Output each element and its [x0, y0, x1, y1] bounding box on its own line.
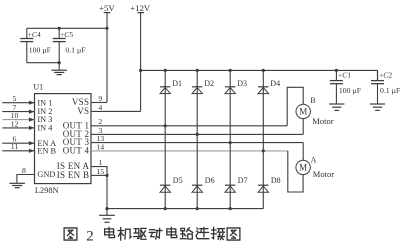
diode D1 — [160, 86, 170, 88]
caption: 驱 — [134, 228, 146, 239]
wire input pin 5 — [2, 101, 34, 105]
svg-text:+C1: +C1 — [338, 70, 351, 79]
node C4/C5 ground junction — [58, 61, 61, 64]
wire motor B bottom — [302, 119, 304, 135]
node ground rail D8 — [0, 0, 1, 1]
wire diode column D2/D6 — [196, 70, 198, 208]
capacitor C1 — [330, 70, 343, 103]
wire OUT3 pin13 — [91, 142, 303, 144]
svg-text:D8: D8 — [271, 176, 281, 185]
svg-text:Motor: Motor — [313, 169, 334, 179]
svg-text:+12V: +12V — [130, 3, 151, 13]
node rail top D1 — [164, 69, 167, 72]
node ground rail D7 — [229, 207, 232, 210]
wire GND pin 8 — [17, 175, 35, 183]
diode D7 — [225, 184, 235, 186]
svg-text:IN 4: IN 4 — [37, 124, 53, 133]
svg-text:IN 1: IN 1 — [37, 98, 52, 107]
svg-text:D7: D7 — [238, 176, 248, 185]
wire pin 15 IS EN B — [91, 174, 107, 176]
wire pin 9 VSS to +5V — [91, 102, 107, 104]
wire +5V to C4/C5 — [27, 27, 107, 29]
diode D5 — [160, 184, 170, 186]
svg-text:+C2: +C2 — [379, 70, 392, 79]
svg-text:EN B: EN B — [37, 146, 56, 155]
svg-text:D5: D5 — [173, 176, 183, 185]
node rail top D3 — [229, 69, 232, 72]
capacitor C2 feed — [377, 70, 379, 80]
node rail top D2 — [196, 69, 199, 72]
svg-text:11: 11 — [11, 142, 19, 151]
svg-text:0.1 µF: 0.1 µF — [65, 45, 85, 54]
svg-text:4: 4 — [98, 103, 102, 112]
wire input pin 7 — [2, 110, 34, 114]
svg-text:D2: D2 — [204, 79, 214, 88]
svg-text:M: M — [299, 162, 307, 172]
svg-text:9: 9 — [98, 94, 102, 103]
svg-text:OUT 4: OUT 4 — [63, 146, 90, 156]
svg-text:VS: VS — [77, 106, 89, 116]
wire input pin 6 — [2, 141, 34, 145]
wire input pin 12 — [2, 126, 34, 130]
caption: 图 — [227, 228, 240, 240]
svg-text:A: A — [311, 156, 317, 165]
diode D4 — [258, 86, 268, 88]
svg-text:IS EN B: IS EN B — [57, 170, 90, 180]
diode D2 — [192, 86, 202, 88]
+5V power symbol — [99, 3, 115, 103]
svg-text:12: 12 — [11, 119, 19, 128]
svg-text:0.1 µF: 0.1 µF — [380, 86, 400, 95]
node output junction D4 — [262, 149, 265, 152]
svg-text:1: 1 — [98, 158, 102, 167]
node IS EN junction — [105, 174, 108, 177]
wire IS EN to ground rail — [106, 175, 108, 208]
wire diode column D4/D8 — [262, 70, 264, 208]
svg-text:GND: GND — [37, 170, 55, 179]
wire C4/C5 bottom — [27, 62, 59, 64]
svg-text:D1: D1 — [172, 79, 182, 88]
wire motor A top stub — [302, 143, 304, 161]
capacitor C4 — [20, 28, 33, 62]
wire diode column D3/D7 — [229, 70, 231, 208]
node ground rail D6 — [196, 207, 199, 210]
diode D6 — [192, 184, 202, 186]
ground at pin 8 — [9, 182, 25, 184]
svg-text:L298N: L298N — [35, 186, 59, 195]
main ground symbol — [99, 209, 115, 223]
wire motor A bottom detour — [288, 151, 303, 192]
node output junction D1 — [164, 124, 167, 127]
wire OUT4 pin14 — [91, 150, 288, 152]
svg-text:Motor: Motor — [312, 116, 333, 126]
svg-text:D6: D6 — [205, 176, 215, 185]
motor B symbol — [296, 104, 310, 118]
caption: 图 — [64, 228, 77, 240]
node C5 top junction — [58, 27, 61, 30]
wire pin 4 VS to +12V — [91, 110, 141, 112]
wire ground rail — [107, 208, 263, 210]
wire diode column D1/D5 — [164, 70, 166, 208]
svg-text:B: B — [310, 96, 315, 105]
ground under C1 — [329, 103, 344, 105]
wire input pin 11 — [2, 149, 34, 153]
svg-text:D3: D3 — [237, 79, 247, 88]
ground under C4/C5 — [51, 63, 67, 75]
ground under C2 — [370, 103, 385, 105]
svg-text:+C4: +C4 — [28, 30, 41, 39]
node output junction D3 — [229, 141, 232, 144]
svg-text:5: 5 — [13, 94, 17, 103]
node C1 junction — [335, 69, 338, 72]
caption figure 2 — [64, 227, 240, 244]
wire OUT1 pin2 — [91, 125, 287, 127]
diode D8 — [258, 184, 268, 186]
motor A symbol — [296, 160, 310, 174]
node +12V rail corner — [139, 69, 142, 72]
+12V power symbol — [130, 3, 151, 112]
node ground rail D5 — [164, 207, 167, 210]
svg-text:2: 2 — [86, 229, 94, 245]
svg-text:D4: D4 — [270, 79, 280, 88]
svg-text:8: 8 — [22, 166, 26, 175]
caption: 连 — [196, 228, 209, 239]
capacitor C5 — [53, 28, 66, 62]
node rail top D4 — [262, 69, 265, 72]
svg-text:14: 14 — [96, 142, 104, 151]
wire pin 1 IS EN A — [91, 167, 107, 176]
svg-text:100 µF: 100 µF — [339, 86, 361, 95]
svg-text:U1: U1 — [33, 82, 43, 91]
diode D3 — [225, 86, 235, 88]
wire input pin 10 — [2, 118, 34, 122]
svg-text:M: M — [299, 106, 307, 116]
caption: 路 — [180, 228, 192, 239]
caption: 电 — [105, 227, 115, 237]
node ground rail left — [105, 207, 108, 210]
svg-text:+C5: +C5 — [60, 30, 73, 39]
wire motor B top branch — [287, 87, 303, 126]
capacitor C2 — [371, 70, 384, 103]
op-chip U1 L298N box — [35, 94, 92, 184]
node output junction D2 — [196, 133, 199, 136]
caption: 动 — [149, 228, 162, 239]
caption: 接 — [211, 227, 224, 239]
caption: 机 — [118, 228, 131, 241]
node +5V rail junction — [105, 27, 108, 30]
wire OUT2 pin3 — [91, 133, 303, 135]
svg-text:15: 15 — [96, 167, 104, 176]
svg-text:100 µF: 100 µF — [29, 45, 51, 54]
wire +12V rail — [141, 69, 378, 71]
svg-text:+5V: +5V — [99, 3, 115, 13]
caption: 电 — [167, 227, 177, 237]
